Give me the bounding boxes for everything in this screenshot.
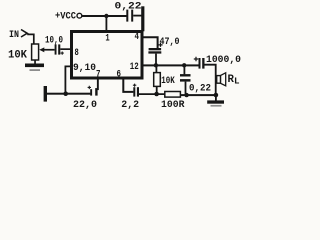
- svg-text:8: 8: [75, 48, 79, 59]
- junction output/zobel: [182, 63, 186, 67]
- svg-text:4: 4: [135, 32, 140, 43]
- svg-text:0,22: 0,22: [115, 0, 142, 12]
- wire junction to pin 1: [106, 16, 108, 31]
- svg-text:47,0: 47,0: [160, 36, 180, 48]
- C4 plus mark: [133, 84, 136, 87]
- svg-text:IN: IN: [9, 29, 19, 41]
- op-amp IC U1 body: [72, 32, 143, 79]
- wire pin 7 down to C7: [97, 80, 99, 91]
- junction VCC/pin1: [104, 14, 108, 18]
- svg-text:+VCC: +VCC: [55, 11, 77, 23]
- svg-text:9,10: 9,10: [73, 62, 96, 74]
- ground left chassis bar: [44, 86, 47, 102]
- wire C4 to R3: [139, 93, 165, 95]
- capacitor C6 1000,0 plates: [199, 58, 201, 69]
- wire C1 to pin 8: [60, 48, 71, 50]
- capacitor C4 2,2 plates: [133, 87, 135, 96]
- wire C6 to speaker: [205, 65, 216, 95]
- svg-text:6: 6: [117, 69, 122, 80]
- svg-text:12: 12: [130, 62, 139, 73]
- svg-text:100R: 100R: [161, 99, 185, 111]
- wire pin 4 to C3: [143, 37, 158, 48]
- junction rail/pins 9,10: [63, 91, 68, 96]
- capacitor C2 0,22 plates: [126, 10, 128, 22]
- potentiometer R1 10K body: [32, 44, 39, 60]
- input jack terminal: [21, 30, 27, 38]
- svg-text:10,0: 10,0: [45, 35, 63, 47]
- svg-text:1: 1: [105, 34, 109, 45]
- C1 plus mark: [61, 52, 64, 55]
- capacitor C7 22,0 plates: [90, 89, 92, 95]
- wire pins 9,10: [65, 66, 71, 93]
- junction R3/C5: [184, 93, 188, 97]
- terminal +VCC: [77, 13, 82, 18]
- resistor R3 100R: [165, 92, 181, 98]
- svg-text:RL: RL: [228, 74, 240, 87]
- svg-text:22,0: 22,0: [73, 99, 97, 111]
- junction R2/R3: [154, 92, 159, 97]
- C3 plus mark: [158, 43, 162, 47]
- C6 plus mark: [194, 57, 198, 61]
- svg-text:10K: 10K: [8, 49, 27, 61]
- capacitor C3 47,0 plates: [149, 48, 162, 50]
- ground speaker: [215, 95, 217, 101]
- svg-text:2,2: 2,2: [121, 99, 139, 111]
- wire output rail pin 12: [143, 64, 199, 66]
- wire input to potentiometer: [27, 34, 34, 44]
- svg-text:0,22: 0,22: [189, 82, 211, 94]
- wire R3 to speaker ground: [180, 94, 216, 96]
- wire wiper to C1: [44, 49, 55, 51]
- wire C2 to IC corner: [133, 15, 142, 17]
- wire VCC rail: [82, 15, 127, 17]
- svg-text:7: 7: [96, 69, 101, 80]
- capacitor C1 10,0 plates: [55, 44, 57, 54]
- svg-text:10K: 10K: [161, 75, 175, 87]
- wire pin 6 down: [123, 80, 133, 92]
- speaker RL: [217, 76, 221, 84]
- resistor R2 10K: [156, 66, 158, 73]
- junction output/feedback: [154, 63, 158, 67]
- wire C3 to output node: [155, 54, 157, 66]
- capacitor C5 0,22 zobel: [184, 66, 186, 74]
- junction speaker/ground: [214, 93, 219, 98]
- wire left ground rail: [47, 93, 90, 95]
- ground below potentiometer: [34, 60, 36, 64]
- C7 plus mark: [88, 86, 91, 89]
- potentiometer wiper arrow: [39, 47, 44, 52]
